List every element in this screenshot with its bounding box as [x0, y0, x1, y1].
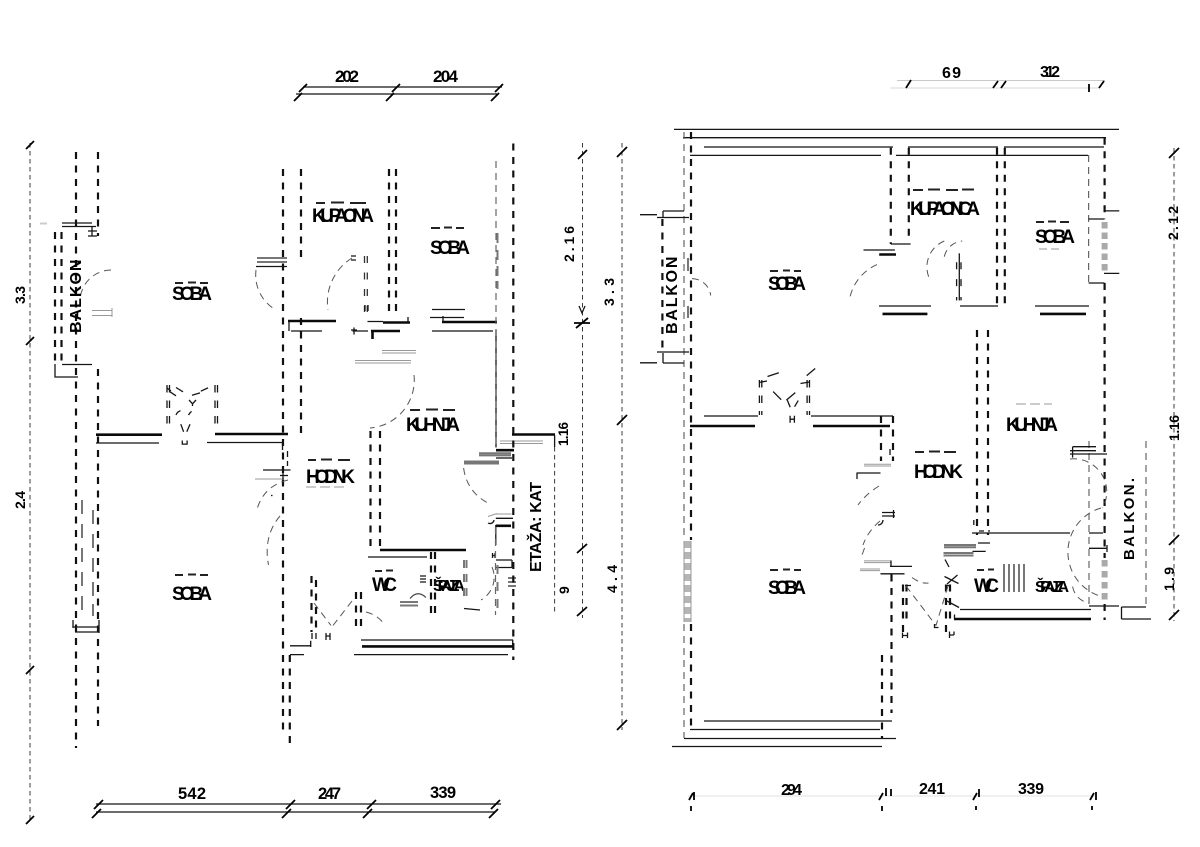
left dim tick bottom — [617, 720, 627, 730]
left wall fine upper — [683, 132, 685, 540]
bottom door diag — [945, 560, 949, 568]
bottom wall left piece — [290, 641, 311, 655]
bottom door stub 1 gray — [864, 561, 891, 563]
kitchen small arc — [1073, 587, 1089, 603]
bottom dim line faint — [688, 795, 1095, 797]
left dim tick bottom — [26, 816, 34, 824]
top dimension line lower — [296, 93, 497, 95]
kupaonica left wall inner — [908, 148, 910, 240]
window hatch left wall lower — [82, 500, 93, 616]
mid wall row y416 seg2 — [811, 415, 893, 417]
bottom wall y654 — [354, 654, 508, 656]
right window box upper — [496, 560, 512, 568]
balcony door arc — [80, 270, 111, 303]
bottom dim tick 1 — [689, 792, 694, 811]
balcony top rail — [663, 211, 684, 217]
wc gray bars — [400, 602, 418, 606]
soba right sill y317 — [430, 317, 464, 319]
svg-text:69: 69 — [942, 65, 961, 82]
bottom door stub 2 gray — [860, 569, 880, 571]
window gray small right — [508, 578, 516, 586]
double door V legs — [787, 400, 798, 407]
kitchen sill end marks — [365, 305, 368, 311]
right wall fine upper — [1088, 155, 1090, 283]
svg-text:ŠPAJZA: ŠPAJZA — [1035, 577, 1069, 596]
kitchen door arc 2 — [1068, 508, 1101, 596]
bottom door u mark — [935, 624, 939, 628]
balcony bottom rail — [663, 353, 684, 363]
wc corner top right — [974, 520, 990, 531]
entry stub gray — [864, 464, 891, 466]
entry leaf dark2 — [496, 524, 511, 527]
wc gray pair 1 — [944, 545, 976, 547]
svg-text:BALKON.: BALKON. — [1121, 478, 1138, 560]
inner top wall seg2 — [908, 146, 998, 148]
svg-text:SOBA: SOBA — [172, 584, 212, 605]
double door arc dashes — [176, 411, 192, 415]
hodnik door leaf dark — [263, 469, 291, 471]
right dim tick 3 — [577, 544, 587, 553]
svg-text:BALKON: BALKON — [664, 257, 681, 334]
spajza door posts — [431, 552, 435, 617]
double door H mark — [790, 416, 794, 423]
right wall window sill piece — [512, 433, 555, 436]
kitchen counter upper — [382, 351, 416, 354]
kitchen door arc 1 — [1070, 459, 1107, 508]
entry door leaf — [882, 510, 895, 518]
kitchen door arc — [370, 375, 414, 428]
entry door stub dark2 — [496, 457, 512, 459]
entry leaf dark — [496, 517, 513, 519]
hodnik label underline dashes — [306, 486, 344, 488]
mid wall row y426 seg1 — [690, 425, 755, 428]
mid wall row y426 seg2 — [813, 425, 890, 428]
right balcony stub top — [1089, 545, 1107, 552]
right dim tick 4 — [577, 607, 587, 616]
dim tick right — [491, 84, 503, 101]
hodnik arc dot — [271, 495, 273, 497]
bottom soba wall y747 — [672, 746, 882, 748]
kitchen doorway wall y331 — [371, 331, 400, 339]
bottom door post B — [946, 585, 950, 639]
bottom right corner — [512, 640, 514, 647]
double door top ticks — [167, 388, 208, 396]
hodnik wall pair — [881, 416, 893, 461]
double door u mark — [182, 441, 187, 445]
wall V6 fine lower — [495, 527, 497, 615]
double door top ticks — [759, 369, 815, 384]
bottom door V leaves — [906, 586, 948, 626]
entry door stub dark1 — [496, 449, 514, 452]
hodnik door arc1 — [257, 480, 289, 511]
left wall fine lower — [683, 624, 685, 738]
kitchen doorway wall piece y322 — [383, 321, 410, 324]
mid wall y306 seg3 — [1035, 305, 1089, 307]
wc bottom wall thin — [960, 609, 1091, 611]
svg-text:9: 9 — [556, 586, 572, 594]
right dim tick top — [1169, 148, 1179, 158]
wall row A y321 seg1 — [288, 320, 336, 323]
right wall window sill double — [500, 441, 543, 444]
entry door arc frag3 — [861, 548, 865, 558]
double door posts — [759, 380, 761, 415]
svg-text:KUHINJA: KUHINJA — [406, 415, 460, 436]
balcony bottom ext — [640, 362, 657, 364]
wall row B y331 — [432, 330, 493, 332]
kupaonica right wall outer — [996, 148, 998, 307]
kupaonica door sill thick — [879, 253, 896, 256]
spajza wall pair gray — [464, 560, 467, 600]
spajza door dash — [464, 609, 480, 611]
svg-text:SOBA: SOBA — [1035, 227, 1075, 248]
balcony top wide line — [657, 217, 689, 219]
entry door arc frag2 — [863, 521, 880, 545]
bottom door post B tick — [945, 586, 954, 639]
left dim tick 3 — [26, 666, 34, 674]
wc top wall y557 — [368, 556, 427, 558]
svg-text:542: 542 — [178, 785, 206, 803]
window hatch V6 lower — [497, 565, 499, 608]
inner top wall lower seg2 — [896, 154, 1088, 156]
kitchen counter line — [1070, 451, 1107, 454]
faint fragment left of rail — [40, 223, 47, 225]
double door X arms — [773, 392, 795, 401]
outer top wall line2 — [683, 137, 1106, 139]
entry leaf gray — [488, 514, 512, 517]
right dim tick 2 — [574, 318, 590, 328]
bottom door post left — [312, 576, 317, 632]
bottom door V leaves — [314, 601, 352, 626]
entry door inner line — [495, 330, 497, 447]
kuhinja wc wall y550 — [380, 549, 466, 552]
right wall lower hatch band — [1102, 560, 1108, 603]
faint fragment left of rail — [40, 223, 47, 225]
svg-text:BALKON: BALKON — [68, 260, 85, 333]
kuhinja label dashes — [1016, 403, 1052, 405]
entry hinge mark — [889, 449, 891, 455]
kupaonica door sill thin — [864, 249, 895, 251]
wc gray pair 2 — [944, 553, 974, 556]
left soba top wall y443 — [96, 442, 159, 444]
double door Y mark — [189, 400, 196, 406]
left dim tick top — [617, 147, 627, 157]
mid wall y306 seg2 — [960, 305, 998, 307]
right balcony stub bottom — [1089, 605, 1119, 607]
balcony bottom right lines — [1122, 607, 1152, 619]
bottom dim tick 2 — [282, 800, 295, 818]
bottom wall y640 — [361, 639, 513, 641]
kitchen balcony door corner — [1073, 447, 1096, 458]
svg-text:2.12: 2.12 — [1165, 206, 1181, 240]
soba window sill top — [1089, 211, 1120, 219]
kupaona door leaf — [257, 258, 287, 262]
wall V7 outer right — [512, 144, 514, 661]
dim tick mid — [386, 84, 400, 101]
hodnik door post dashes — [287, 451, 289, 466]
kitchen counter lower — [355, 361, 411, 364]
wall V3 kupaona left outer — [282, 169, 284, 736]
bottom door stub 2 dark — [881, 573, 905, 575]
wall row A y331 seg1 — [291, 330, 322, 332]
top dimension line lower faint — [890, 87, 1100, 89]
hodnik door leaf gray — [255, 478, 284, 480]
right wall window hatch band — [1102, 222, 1108, 273]
kupaona door small leaf — [351, 256, 356, 260]
double door lower V — [181, 424, 190, 432]
outer top wall line1 — [674, 128, 1119, 130]
right dim line x582 — [582, 143, 584, 618]
bottom dim tick 3 — [973, 789, 979, 810]
shower wall pair — [365, 256, 368, 312]
mid wall y314 seg1 — [883, 313, 928, 316]
double door posts mid — [167, 385, 170, 424]
right wall heavy seg3 — [1103, 604, 1105, 620]
soba window sill bottom — [1089, 273, 1120, 283]
left dim tick 2 — [26, 337, 34, 345]
bottom dim tick 3 — [363, 800, 376, 818]
svg-text:HODNIK: HODNIK — [914, 462, 963, 483]
top dimension line upper — [303, 86, 502, 88]
kupaona door arc — [256, 270, 276, 310]
inner top wall lower seg1 — [690, 154, 881, 156]
entry door stub gray2 — [464, 462, 499, 464]
spajza H mark — [493, 553, 496, 558]
svg-text:SOBA: SOBA — [430, 238, 470, 259]
svg-text:4.4: 4.4 — [604, 565, 620, 593]
entry stub dark — [857, 473, 881, 479]
top dimension line — [897, 80, 1105, 82]
bottom door H marks — [312, 633, 330, 640]
wc door arc — [410, 594, 426, 599]
right dim line x1174 — [1173, 148, 1175, 621]
svg-text:ŠPAJZA: ŠPAJZA — [433, 576, 465, 595]
wall V1 outer left — [75, 152, 77, 748]
entry small arc — [488, 520, 494, 524]
window end marks left lower — [73, 620, 99, 633]
svg-text:SOBA: SOBA — [172, 284, 212, 305]
hodnik top wall y443 — [207, 442, 283, 450]
bottom soba wall y738 — [684, 738, 896, 740]
svg-text:KUPAONICA: KUPAONICA — [910, 199, 980, 220]
bottom door post A — [903, 585, 907, 639]
inner top wall seg1 — [704, 146, 893, 148]
svg-text:WC: WC — [974, 576, 999, 597]
wall V4 kupaona left inner upper — [300, 169, 302, 258]
kupaona door dark edge — [256, 266, 287, 268]
wall V2 inner left lower — [97, 369, 99, 726]
left dim line x622 — [621, 143, 623, 730]
left dim tick top — [26, 141, 34, 149]
kupaonica left wall outer — [890, 148, 892, 244]
right dim tick top — [578, 150, 587, 159]
right balcony outer dashed — [1145, 441, 1147, 606]
balcony left wall — [55, 232, 62, 364]
right wall fine lower — [1088, 441, 1090, 606]
window hatch V6 upper — [497, 233, 499, 289]
svg-text:KUHINJA: KUHINJA — [1006, 415, 1058, 436]
svg-text:247: 247 — [318, 785, 341, 803]
bottom dim tick 2 — [879, 788, 891, 811]
svg-text:339: 339 — [1018, 781, 1044, 798]
entry door arc — [464, 468, 490, 504]
wall stub below bottom — [289, 655, 291, 744]
kitchen doorway wall thin y322 — [368, 317, 409, 322]
right wall heavy seg2 — [1103, 283, 1105, 558]
bottom wall y646 thick — [362, 645, 513, 648]
left wall heavy upper — [690, 132, 692, 540]
left wall window hatch band — [684, 541, 691, 622]
entry small arc — [878, 520, 883, 525]
svg-text:3.3: 3.3 — [12, 286, 28, 304]
left wall window hatch edges — [684, 541, 691, 622]
svg-text:2.16: 2.16 — [561, 226, 577, 262]
svg-text:HODNIK: HODNIK — [306, 467, 355, 488]
bottom door arcs — [366, 612, 384, 624]
svg-text:KUPAONA: KUPAONA — [312, 206, 374, 227]
svg-text:3.3: 3.3 — [601, 278, 617, 306]
svg-text:1.9: 1.9 — [1161, 567, 1177, 591]
mid wall y306 seg1 — [879, 305, 931, 307]
dim tick left — [294, 84, 307, 101]
entry vert join — [495, 525, 497, 545]
entry door arc frag1 — [858, 486, 879, 505]
hodnik-kuhinja wall pair — [371, 431, 381, 549]
kupaonica small arc — [944, 241, 962, 257]
balcony bottom rail — [55, 364, 92, 377]
svg-text:2.4: 2.4 — [12, 491, 28, 509]
entry door stub gray1 — [479, 453, 511, 455]
spajza door arc — [481, 567, 494, 600]
balcony door arc — [692, 279, 711, 296]
svg-text:1.16: 1.16 — [1166, 415, 1182, 441]
wall V5a kupaona right outer — [388, 169, 390, 316]
small tick left of kitchen wall — [351, 328, 368, 335]
svg-text:202: 202 — [335, 67, 359, 86]
kupaonica right wall inner — [1004, 148, 1006, 307]
svg-text:294: 294 — [781, 782, 802, 799]
left dim tick mid — [617, 415, 627, 425]
bottom dim line lower — [96, 811, 495, 813]
left soba top wall y434 — [96, 433, 162, 436]
balcony top ext line — [640, 214, 657, 216]
wc dark stubs — [973, 543, 991, 551]
bottom door cross — [945, 575, 959, 584]
bottom dim tick 4 — [489, 800, 500, 818]
top dim tick 1 — [906, 80, 911, 88]
svg-text:ETAŽA: KAT: ETAŽA: KAT — [526, 482, 545, 572]
aux dashed x554 — [554, 447, 556, 615]
wall V2 inner left upper — [97, 152, 99, 236]
wall V6 fine upper — [495, 161, 497, 447]
hodnik door cross — [280, 472, 288, 479]
wall row B y322 — [442, 321, 497, 324]
bottom soba wall y721 — [704, 720, 892, 722]
balcony top rail — [62, 223, 96, 227]
mid wall y314 seg2 — [1040, 313, 1086, 316]
kuhinja left wall pair — [977, 330, 988, 535]
kupaonica corner — [891, 243, 911, 245]
hodnik door arc2 — [267, 516, 280, 565]
right dim tick bottom — [1169, 610, 1179, 620]
top dim tick 2b — [1001, 81, 1006, 88]
bottom door leaf diag — [947, 601, 959, 608]
wall V4 lower — [300, 318, 302, 434]
svg-text:1.16: 1.16 — [556, 422, 571, 446]
balcony door hatch — [687, 258, 689, 318]
bottom dim tick 1 — [92, 800, 103, 818]
left wall heavy lower — [690, 624, 692, 726]
kupaonica inner post — [958, 253, 960, 300]
hodnik top wall y434 — [215, 433, 288, 436]
wc bottom wall thick — [954, 618, 1091, 621]
wc small marks — [420, 576, 426, 582]
soba label dashes — [1039, 248, 1059, 250]
kupaona interior door arc — [327, 258, 352, 310]
balcony left dashed — [661, 219, 663, 352]
wc top wall — [972, 532, 1103, 534]
svg-text:312: 312 — [1040, 64, 1060, 81]
wall V5b kupaona right inner — [395, 169, 397, 316]
left outer dim line — [29, 143, 31, 821]
svg-text:204: 204 — [433, 67, 459, 86]
bottom door post right — [356, 592, 361, 631]
svg-text:SOBA: SOBA — [768, 578, 806, 599]
svg-text:SOBA: SOBA — [768, 274, 806, 295]
label garble fragments — [175, 190, 1069, 576]
right dim arrow — [579, 306, 585, 313]
inner top wall seg3 — [1004, 146, 1104, 148]
top dim tick 2a — [993, 81, 998, 88]
top dim tick 3 — [1089, 81, 1104, 92]
bottom door stub 1 dark — [890, 561, 912, 567]
bottom hall post — [882, 575, 892, 739]
kupaonica entry arc big — [850, 265, 877, 297]
svg-text:241: 241 — [919, 781, 945, 798]
bottom soba wall y729 — [690, 729, 880, 731]
mid wall row y416 seg1 — [704, 415, 758, 417]
right dim tick mid — [1169, 535, 1179, 545]
wc toilet hatch — [1004, 564, 1024, 592]
right wall heavy seg1 — [1103, 138, 1105, 219]
svg-text:WC: WC — [372, 575, 397, 596]
kupaonica arc 2 — [927, 241, 944, 279]
balcony top corner mark — [88, 226, 97, 236]
svg-text:339: 339 — [430, 784, 456, 802]
soba right sill y309 — [432, 309, 465, 311]
bottom dim tick 4 — [1090, 792, 1096, 810]
bottom dim line upper — [96, 803, 501, 805]
kupaonica post marks — [957, 262, 961, 300]
balcony bottom wide line — [657, 351, 689, 353]
bottom door arc — [912, 578, 929, 584]
bottom door post A tick — [903, 586, 912, 639]
balcony door sill lines — [92, 308, 112, 317]
